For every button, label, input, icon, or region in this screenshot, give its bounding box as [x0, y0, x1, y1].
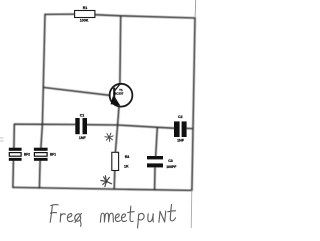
wire emitter below transistor: [118, 107, 119, 125]
svg-text:BF2: BF2: [24, 153, 30, 157]
hand star mark 2: [101, 176, 112, 187]
resistor R1 body: [75, 11, 95, 18]
wire mid horizontal left segment to C1: [14, 123, 75, 125]
letter t (final): [170, 205, 175, 221]
wire below C3 to ground rail: [154, 167, 156, 189]
wire emitter node to R3: [115, 125, 117, 152]
transistor T1 emitter diagonal: [114, 97, 119, 105]
svg-text:R1: R1: [83, 6, 88, 10]
crystal BF2: [9, 148, 22, 161]
svg-text:C1: C1: [80, 114, 85, 118]
ground rail bottom: [13, 187, 191, 190]
svg-text:C3: C3: [168, 159, 173, 163]
svg-text:R3: R3: [125, 155, 130, 159]
page edge upper: [194, 0, 197, 18]
wire left vertical from top corner to node A: [42, 14, 45, 124]
wire right rail vertical: [192, 18, 195, 190]
letter q: [75, 214, 81, 221]
letter u: [148, 214, 153, 222]
wire top rail left of R1: [45, 13, 75, 15]
svg-text:1NF: 1NF: [177, 138, 185, 142]
capacitor C1 plates: [75, 118, 87, 134]
letter m: [100, 213, 113, 222]
letter e: [115, 214, 120, 221]
wire below crystal BF2 to ground rail: [12, 161, 15, 188]
letter p: [138, 214, 139, 228]
capacitor C3 plates: [147, 156, 163, 167]
wire base stub to transistor T1: [43, 87, 109, 95]
crystal BF1: [34, 148, 48, 161]
svg-text:C2: C2: [178, 115, 183, 119]
svg-text:100K: 100K: [80, 18, 89, 22]
svg-text:BC237: BC237: [114, 92, 124, 96]
svg-text:100PF: 100PF: [166, 165, 176, 169]
capacitor C2 plates: [174, 121, 187, 137]
left edge mark: [0, 137, 3, 141]
transistor T1 emitter arrow: [111, 96, 120, 105]
svg-text:BF1: BF1: [50, 153, 56, 157]
svg-text:1K: 1K: [124, 165, 129, 169]
transistor T1 base bar: [113, 88, 115, 100]
resistor R3 body: [112, 152, 119, 170]
wire mid horizontal C1 to emitter node: [87, 124, 118, 126]
wire left vertical node A to crystal BF1: [41, 124, 43, 148]
page edge lower: [190, 191, 193, 228]
svg-text:1NF: 1NF: [79, 136, 87, 140]
handwritten label Freq meetpunt: [50, 205, 175, 228]
wire C3 tap from emitter line: [156, 127, 158, 156]
letter t: [130, 206, 133, 221]
wire below crystal BF1 to ground rail: [38, 161, 41, 188]
hand star mark 1: [105, 133, 113, 141]
letter N: [159, 211, 160, 222]
transistor T1 circle: [110, 84, 133, 107]
wire R3 to ground rail: [113, 171, 116, 189]
wire C2 to right rail: [187, 127, 193, 129]
wire left branch corner down to crystal BF2: [13, 124, 15, 148]
letter e: [67, 214, 73, 222]
wire emitter node to C2: [118, 125, 174, 128]
letter e: [121, 214, 126, 221]
letter r: [59, 214, 62, 222]
letter F: [50, 205, 52, 222]
wire collector vertical: [119, 16, 122, 84]
wire top rail right of R1: [95, 15, 195, 18]
transistor T1 collector diagonal: [115, 84, 120, 91]
